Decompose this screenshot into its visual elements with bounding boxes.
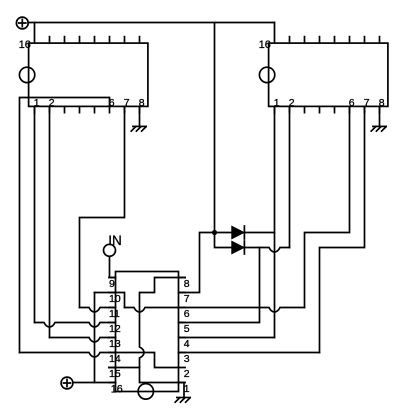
terminal IN [104, 233, 122, 256]
svg-text:4: 4 [184, 338, 190, 350]
wire +V rail top [28, 22, 274, 24]
svg-text:11: 11 [109, 308, 120, 320]
IC U2 index circle left edge [259, 67, 274, 82]
svg-text:7: 7 [184, 293, 190, 305]
wire U2 pin 6 staircase to U3 pin 6 [305, 106, 350, 307]
wire +V bottom to U3 pin 16 [73, 382, 116, 384]
IC U1 index circle left edge [19, 67, 34, 82]
ground symbol bottom [175, 398, 190, 403]
svg-text:12: 12 [109, 323, 121, 335]
wire U3 pin 15 to ground net [109, 367, 140, 369]
diode D2 (cathode wire hops over U2 pin1 wire) [232, 241, 290, 254]
IC U1 body (top-left, 16-pin) [29, 43, 148, 106]
wire U3 pin 8 ground path to pin 1 and ground (vertical hop at pin14 row) [140, 278, 186, 398]
wire U2 pin 2 down to diode D2 cathode [289, 106, 291, 247]
svg-text:2: 2 [184, 368, 190, 380]
svg-text:6: 6 [184, 308, 190, 320]
svg-text:9: 9 [109, 278, 115, 290]
svg-text:15: 15 [109, 368, 121, 380]
wire U3 pin 5 up to diode D2 cathode row [179, 248, 260, 323]
wire U1 pin 6 bus over body [20, 98, 110, 353]
wire IN to U3 pin 9 [110, 256, 116, 277]
wire U2 pin 7 staircase to U3 pin 3 [320, 106, 365, 352]
wire U1 pin 7 down with jog [80, 106, 125, 307]
svg-text:14: 14 [109, 353, 121, 365]
svg-text:3: 3 [184, 353, 190, 365]
power terminal +V top-left [16, 17, 28, 29]
wire U1 pin 1 down [34, 106, 36, 322]
svg-text:5: 5 [184, 323, 190, 335]
wire junction down to diode D2 anode [215, 233, 232, 248]
svg-text:8: 8 [184, 278, 190, 290]
wire U1 pin1 net to U3 pin 12 (two hops) [35, 323, 116, 328]
IC U2 bottom pin ticks 1-8 [275, 106, 380, 112]
svg-text:13: 13 [109, 338, 121, 350]
wire +V down to diode junction [214, 23, 216, 231]
wire U2 pin 1 down to U3 pin 4 row [274, 106, 276, 337]
svg-text:16: 16 [19, 39, 31, 51]
IC U3 left pin ticks 9-16 [109, 278, 116, 383]
wire junction to U3 pin 7 [179, 233, 215, 293]
svg-text:10: 10 [109, 293, 121, 305]
wire +V to U2 pin 16 [274, 23, 276, 44]
wire U3 pin10 row to pin 6 right (hops pin8 path) [125, 308, 305, 313]
wire +V to U1 pin 16 [34, 23, 36, 44]
junction node diode anodes [212, 230, 217, 235]
power terminal +V bottom-left [61, 377, 73, 389]
wire U2 pin 8 to ground [379, 106, 381, 126]
wire U1 pin6 bus to U3 pin 14 and over to pin 2 (hop) [20, 353, 179, 368]
IC U1 bottom pin ticks 1-8 [35, 106, 140, 112]
IC U3 body (middle, 16-pin, rotated) [116, 272, 179, 392]
wire +V net vertical left of U3 [94, 293, 96, 383]
wire U1 pin 2 down [49, 106, 51, 337]
node A: +V vertical into U3 pin 10 [95, 293, 125, 308]
wire U1 pin7 net to U3 pin 11 (hop) [80, 308, 116, 313]
IC U2 body (top-right, 16-pin) [269, 43, 388, 106]
wire U1 pin 8 to ground [139, 106, 141, 126]
svg-text:IN: IN [108, 233, 122, 248]
diode D1 [215, 226, 275, 239]
IC U3 index circle bottom edge [138, 384, 153, 399]
wire U1 pin2 net to U3 pin 13 (hop) [50, 338, 116, 343]
ground symbol under U2 pin 8 [371, 126, 386, 131]
ground symbol under U1 pin 8 [131, 126, 146, 131]
svg-text:16: 16 [111, 384, 123, 396]
IC U2 top pin ticks 15-9 [290, 37, 380, 44]
wire U3 pin 4 row to U2 pin1 wire [179, 337, 275, 339]
IC U3 right pin ticks 8-1 [179, 278, 186, 383]
IC U1 top pin ticks 15-9 [50, 37, 140, 44]
svg-text:16: 16 [259, 39, 271, 51]
wire U3 pin 3 row to staircase [179, 352, 320, 354]
